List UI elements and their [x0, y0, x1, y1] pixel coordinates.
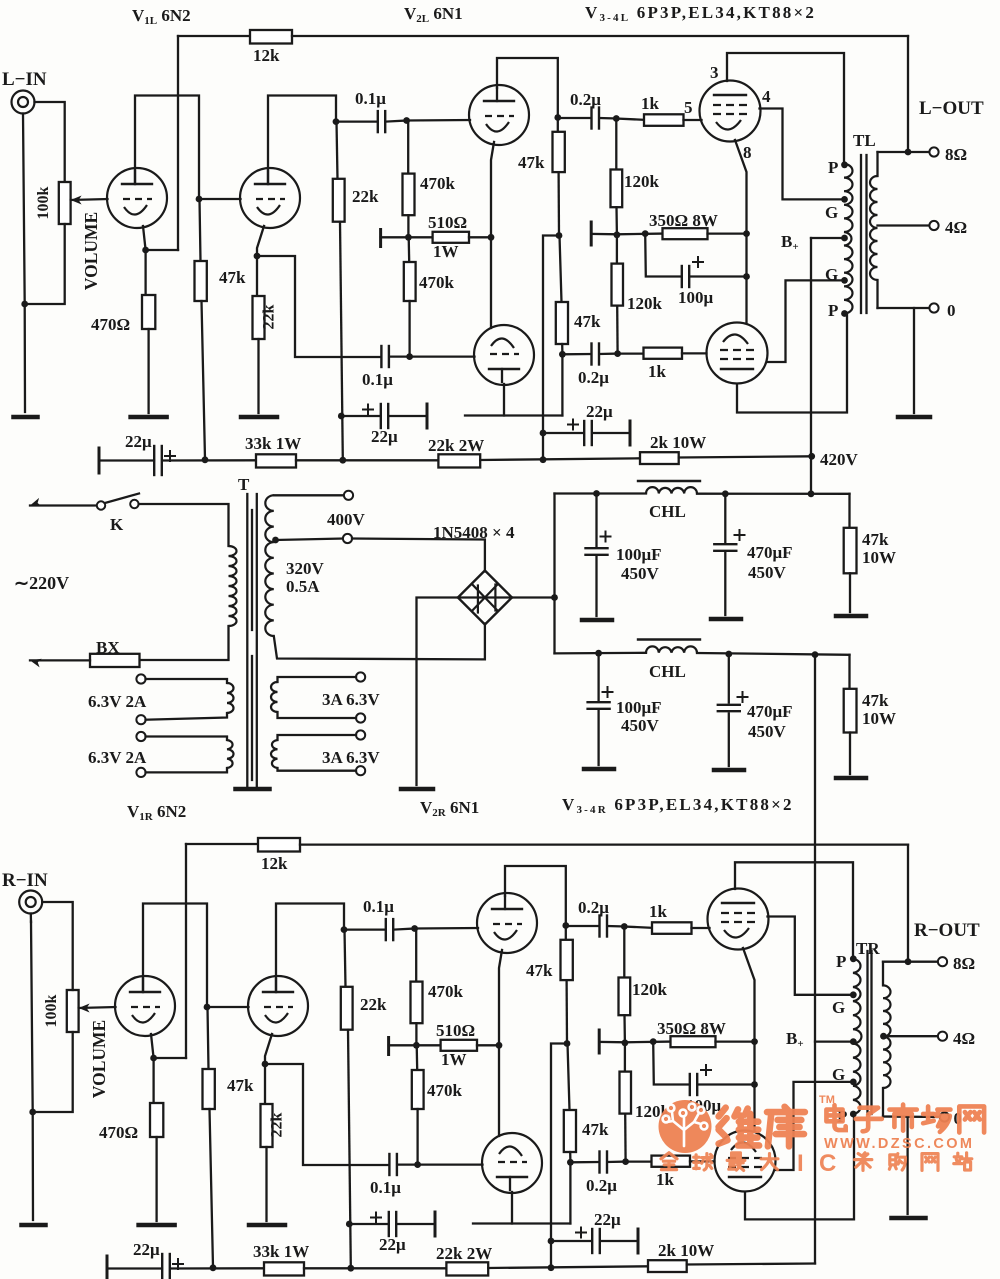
node upper grid branch (R) — [621, 923, 628, 930]
node 22µ (L) — [540, 430, 547, 437]
wire 350Ω to cathodes (L) — [708, 232, 747, 234]
wire V4 plate to OPT P (R) — [745, 1115, 854, 1220]
svg-text:0.5A: 0.5A — [286, 577, 320, 596]
svg-text:470Ω: 470Ω — [91, 315, 130, 334]
label + (L) — [693, 261, 703, 263]
node OPT P top (R) — [850, 955, 857, 962]
node B+ L feed — [808, 490, 815, 497]
wire secondary to ground (L) — [913, 308, 915, 413]
transformer TL core (L) — [860, 155, 862, 313]
node V2-b plate coupling (R) — [567, 1159, 574, 1166]
svg-text:1k: 1k — [649, 902, 668, 921]
wire V3 screen to OPT tap G (R) — [768, 917, 854, 995]
svg-text:47k: 47k — [862, 691, 889, 710]
svg-text:470k: 470k — [428, 982, 464, 1001]
node jog-rail (R) — [548, 1264, 555, 1271]
transformer T primary winding — [229, 546, 237, 626]
capacitor 0.2µ (upper) (L) — [558, 117, 591, 119]
terminal heater L1b — [136, 715, 145, 724]
wire rail (L) — [296, 459, 438, 461]
transformer T HV secondary winding — [265, 495, 274, 636]
capacitor 470µF 450V (1) — [724, 494, 726, 542]
capacitor 22µ (bias bypass right) (R) — [551, 1240, 591, 1242]
watermark text 维库 — [719, 1108, 759, 1146]
watermark text 电子市场网 — [826, 1105, 845, 1130]
transformer TR core — [866, 951, 868, 1114]
wire bleeder 1 to ground — [849, 573, 851, 612]
wire V1-a cathode (L) — [143, 226, 146, 295]
fuse BX — [90, 654, 140, 667]
wire top rail (R) — [300, 843, 908, 845]
svg-text:K: K — [110, 515, 124, 534]
resistor 22k 2W (R) — [446, 1262, 488, 1275]
svg-text:CHL: CHL — [649, 662, 686, 681]
wire V3 plate to OPT P (R) — [735, 862, 853, 959]
heater winding 6.3V 2A (1) — [146, 679, 228, 683]
wire (R) — [345, 930, 346, 987]
terminal heater L2b — [136, 768, 145, 777]
wire DC rail 1 — [555, 492, 647, 494]
wire (R) — [626, 1160, 652, 1162]
wire (L) — [615, 207, 618, 235]
resistor 510Ω 1W (V2 cathode bias) (L) — [433, 232, 469, 243]
wire (L) — [616, 306, 619, 354]
capacitor 0.1µ (lower coupling) (R) — [388, 1154, 390, 1175]
svg-text:470k: 470k — [419, 273, 455, 292]
svg-text:P: P — [828, 301, 838, 320]
wire 350Ω to cathodes (R) — [716, 1040, 755, 1042]
wire secondary to ground (R) — [906, 1117, 908, 1214]
wire V1-a plate to V1-b grid node (L) — [135, 96, 199, 200]
node V1-b grid (R) — [204, 1004, 211, 1011]
svg-text:CHL: CHL — [649, 502, 686, 521]
resistor 47k (grid leak) (R) — [203, 1069, 215, 1109]
svg-text:VOLUME: VOLUME — [89, 1020, 109, 1098]
resistor 470Ω (cathode) (L) — [142, 295, 155, 329]
wire B+ to OPT centre tap (R) — [815, 1040, 853, 1042]
node OPT P bottom (R) — [850, 1111, 857, 1118]
output tube V4 (6P3P/EL34/KT88) (R) — [715, 1131, 776, 1192]
wire 470Ω to ground (R) — [155, 1137, 157, 1221]
svg-text:BX: BX — [96, 638, 120, 657]
node V2-a plate (R) — [562, 922, 569, 929]
resistor 33k 1W (R) — [264, 1262, 304, 1275]
resistor 350Ω 8W (output cathode bias) (L) — [663, 228, 708, 239]
wire 8Ω tap (L) — [878, 151, 930, 153]
svg-text:470Ω: 470Ω — [99, 1123, 138, 1142]
svg-text:120k: 120k — [624, 172, 660, 191]
node first coupling (R) — [341, 926, 348, 933]
ground (input) (L) — [14, 415, 38, 420]
svg-text:47k: 47k — [526, 961, 553, 980]
wire rectifier negative to ground — [417, 598, 458, 786]
svg-text:P: P — [828, 158, 838, 177]
terminal 320V — [343, 534, 352, 543]
node 22k-rail (R) — [347, 1265, 354, 1272]
svg-text:B+: B+ — [786, 1029, 804, 1050]
svg-text:0.1μ: 0.1μ — [363, 897, 394, 916]
ground (bleeder 2) — [836, 776, 866, 781]
terminal 0 (L) — [929, 303, 938, 312]
label + (L) — [165, 455, 175, 457]
node V1-b cathode (L) — [254, 253, 261, 260]
capacitor 22µ (rail left) (L) — [99, 459, 154, 461]
node V2-b plate coupling (L) — [559, 351, 566, 358]
wire grid node to 47k (L) — [200, 199, 201, 261]
wire V2-a plate to driver node (L) — [497, 58, 558, 118]
wire cathode to 12k feedback (L) — [146, 249, 178, 251]
resistor 470k (lower) (R) — [412, 1070, 424, 1109]
svg-text:47k: 47k — [518, 153, 545, 172]
label + (R) — [371, 1217, 381, 1219]
wire (L) — [407, 121, 409, 174]
wire plate stub (L) — [465, 414, 562, 416]
wire (R) — [568, 1044, 570, 1111]
wire 22k down to rail (L) — [340, 222, 343, 459]
svg-text:VOLUME: VOLUME — [81, 212, 101, 290]
node OPT tap G (upper) (L) — [841, 196, 848, 203]
resistor 22k (divider) (L) — [333, 179, 345, 222]
wire 8Ω tap (R) — [883, 961, 938, 963]
wire rail2 to bleeder — [848, 655, 850, 689]
capacitor 0.2µ (lower) (L) — [562, 353, 590, 356]
svg-text:0.2μ: 0.2μ — [570, 90, 601, 109]
node 100µF-1 — [593, 490, 600, 497]
wire 47k to bottom rail (L) — [202, 301, 206, 459]
svg-text:22k: 22k — [261, 304, 278, 329]
node 470k junction (L) — [405, 234, 412, 241]
wire to output grid (R) — [690, 1160, 715, 1162]
wire grid node to 47k (R) — [208, 1007, 209, 1069]
wire (R) — [599, 1041, 625, 1044]
triode V1L-b (6N2) (R) — [248, 976, 308, 1036]
resistor 350Ω 8W (output cathode bias) (R) — [671, 1036, 716, 1047]
stub terminal (R) — [387, 1038, 390, 1055]
svg-text:10W: 10W — [862, 548, 896, 567]
resistor 120k (lower) (R) — [620, 1072, 632, 1114]
node 420V (L) — [808, 453, 815, 460]
node jog-rail (L) — [540, 456, 547, 463]
svg-text:6.3V 2A: 6.3V 2A — [88, 692, 147, 711]
heater winding 3A 6.3V (2) — [278, 735, 357, 740]
node 4Ω tap (R) — [880, 1033, 887, 1040]
node cathode-100µ (R) — [751, 1081, 758, 1088]
wire primary bottom to fuse — [140, 626, 229, 660]
svg-text:120k: 120k — [627, 294, 663, 313]
svg-text:4: 4 — [762, 87, 771, 106]
wire top rail left (L) — [178, 35, 250, 37]
svg-text:C: C — [819, 1150, 836, 1177]
resistor 470k (upper) (R) — [411, 982, 423, 1024]
svg-text:47k: 47k — [219, 268, 246, 287]
wire DC rail 1b — [697, 493, 850, 495]
choke CHL (L) — [646, 487, 697, 493]
resistor 47k (plate load upper) (R) — [561, 940, 573, 980]
svg-text:470k: 470k — [420, 174, 456, 193]
wire rail to B+ node (L) — [679, 456, 812, 457]
svg-text:0.2μ: 0.2μ — [578, 368, 609, 387]
svg-text:12k: 12k — [253, 46, 280, 65]
node V2-a grid (L) — [403, 117, 410, 124]
label + (R) — [576, 1232, 586, 1234]
svg-text:100μ: 100μ — [678, 288, 714, 307]
wire V2-a plate to driver node (R) — [505, 866, 566, 926]
wire to V2-a grid (L) — [407, 119, 470, 122]
svg-text:0.2μ: 0.2μ — [578, 898, 609, 917]
node OPT tap G upper (R) — [850, 991, 857, 998]
ground (transformer core) — [236, 787, 270, 792]
svg-text:1W: 1W — [433, 242, 459, 261]
wire B+ to OPT centre tap (L) — [811, 237, 844, 239]
svg-text:8Ω: 8Ω — [953, 954, 975, 973]
svg-text:450V: 450V — [748, 563, 787, 582]
svg-text:100k: 100k — [43, 994, 60, 1027]
svg-text:8: 8 — [743, 143, 752, 162]
wire jack tip to volume pot (L) — [35, 102, 65, 182]
resistor 2k 10W (R) — [648, 1260, 687, 1272]
wire 320V to rectifier AC1 — [352, 539, 485, 572]
wire (L) — [561, 344, 564, 354]
terminal heater L2a — [136, 732, 145, 741]
svg-text:2k 10W: 2k 10W — [658, 1241, 714, 1260]
transformer TR primary winding — [853, 959, 861, 1114]
svg-text:G: G — [832, 998, 845, 1017]
wire 470Ω to ground (L) — [147, 329, 149, 413]
svg-text:∼220V: ∼220V — [14, 573, 69, 593]
ground (100µF-1) — [582, 618, 612, 623]
resistor 22k (V1-b cathode) (L) — [253, 296, 265, 339]
wire 0 tap (L) — [878, 307, 930, 309]
svg-text:470k: 470k — [427, 1081, 463, 1100]
wire (R) — [416, 1109, 418, 1165]
node OPT centre tap B+ (R) — [850, 1038, 857, 1045]
wire 400V tap — [274, 494, 344, 496]
svg-text:47k: 47k — [582, 1120, 609, 1139]
wire DC riser — [553, 494, 555, 598]
transformer T core — [246, 494, 248, 786]
svg-text:22μ: 22μ — [125, 432, 152, 451]
resistor 470k (upper) (L) — [403, 174, 415, 216]
node rectifier output — [551, 594, 558, 601]
svg-text:0.1μ: 0.1μ — [370, 1178, 401, 1197]
wire pot bottom to input ground (L) — [25, 224, 65, 304]
resistor 470k (lower) (L) — [404, 262, 416, 301]
node V1-b grid (L) — [196, 196, 203, 203]
svg-text:0.2μ: 0.2μ — [586, 1176, 617, 1195]
wire rail (R) — [488, 1266, 648, 1268]
ground (470µF-1) — [711, 617, 741, 622]
output tube V4 (6P3P/EL34/KT88) (L) — [707, 323, 768, 384]
wire to bottom rail (R) — [551, 1044, 567, 1268]
heater winding 3A 6.3V (1) — [278, 677, 357, 682]
wire (L) — [615, 119, 617, 170]
svg-text:10W: 10W — [862, 709, 896, 728]
node V2 cathode (L) — [488, 234, 495, 241]
ground (bleeder 1) — [836, 614, 866, 619]
node 100µF-2 — [595, 650, 602, 657]
node 22µ mid (L) — [338, 413, 345, 420]
wire 510Ω to V2 cathodes (R) — [477, 1044, 499, 1046]
wire 47k to bottom rail (R) — [210, 1109, 214, 1267]
svg-text:1k: 1k — [648, 362, 667, 381]
svg-text:450V: 450V — [621, 716, 660, 735]
wire 510Ω to V2 cathodes (L) — [469, 236, 491, 238]
ground (470µF-2) — [714, 768, 744, 773]
svg-text:3A 6.3V: 3A 6.3V — [322, 748, 380, 767]
heater winding 6.3V 2A (2) — [146, 737, 228, 741]
wire 22k down to rail (R) — [348, 1030, 351, 1267]
ground (V1 cathode) (L) — [131, 415, 167, 420]
svg-text:V3-4L 6P3P,EL34,KT88×2: V3-4L 6P3P,EL34,KT88×2 — [585, 3, 816, 24]
label + (L) — [568, 424, 578, 426]
label + (470µF-2) — [738, 696, 748, 698]
node 22µ (R) — [548, 1238, 555, 1245]
ground (input) (R) — [22, 1223, 46, 1228]
svg-text:TL: TL — [853, 131, 876, 150]
resistor 510Ω 1W (V2 cathode bias) (R) — [441, 1040, 477, 1051]
triode V1L-b (6N2) (L) — [240, 168, 300, 228]
stub terminal (R) — [598, 1030, 601, 1053]
node 470µF-1 — [722, 490, 729, 497]
wire to output grid pin5 (R) — [692, 927, 710, 929]
resistor 47k 10W (bleeder 1) — [844, 528, 857, 574]
node 22µ mid (R) — [346, 1221, 353, 1228]
node 120k junction (R) — [622, 1039, 629, 1046]
wire V1-b cathode (L) — [257, 226, 264, 296]
svg-text:420V: 420V — [820, 450, 859, 469]
node pot-ground junction (L) — [21, 301, 28, 308]
svg-text:2k 10W: 2k 10W — [650, 433, 706, 452]
wire global feedback from 8Ω tap (L) — [907, 36, 909, 152]
capacitor 0.2µ (upper) (R) — [566, 925, 599, 927]
triode V2L-a (6N1) (R) — [477, 893, 537, 953]
transformer TL primary winding (L) — [844, 164, 853, 314]
terminal 4Ω (R) — [938, 1032, 947, 1041]
wire top rail left (R) — [186, 843, 258, 845]
resistor 22k (V1-b cathode) (R) — [261, 1104, 273, 1147]
wire 22k to ground (L) — [257, 339, 259, 413]
wire (R) — [416, 1045, 419, 1070]
watermark text 全球最大IC采购网站 — [661, 1153, 677, 1170]
svg-text:5: 5 — [684, 98, 693, 117]
wire (R) — [569, 1152, 572, 1162]
resistor 470Ω (cathode) (R) — [150, 1103, 163, 1137]
ground (V1-b cathode) (R) — [249, 1223, 285, 1228]
node B+ R feed — [812, 651, 819, 658]
wire 22k to ground (R) — [265, 1147, 267, 1221]
node cathode-feedback junction (R) — [150, 1055, 157, 1062]
ground (rectifier) — [401, 787, 433, 792]
wire jack sleeve down to ground (L) — [23, 114, 25, 413]
wire rail (L) — [480, 458, 640, 460]
stub terminal (L) — [379, 230, 382, 247]
node cathode-feedback junction (L) — [142, 247, 149, 254]
wire pot wiper to V1 grid (R) — [79, 1007, 116, 1008]
terminal heater R2a — [356, 730, 365, 739]
node V2-a plate (L) — [554, 114, 561, 121]
node OPT tap G lower (R) — [850, 1079, 857, 1086]
svg-text:100μF: 100μF — [616, 545, 662, 564]
node lower grid branch (R) — [622, 1158, 629, 1165]
svg-text:100k: 100k — [35, 186, 52, 219]
wire to V2-b grid (L) — [410, 355, 475, 357]
wire to bottom rail (L) — [543, 236, 559, 460]
terminal heater R2b — [356, 766, 365, 775]
wire (R) — [415, 929, 417, 982]
wire (L) — [618, 352, 644, 354]
ground (100µF-2) — [584, 767, 614, 772]
svg-text:B+: B+ — [781, 232, 799, 253]
wire plate stub (R) — [473, 1222, 570, 1224]
wire top rail (L) — [292, 35, 908, 37]
svg-text:22μ: 22μ — [594, 1210, 621, 1229]
label + (R) — [173, 1263, 183, 1265]
svg-text:G: G — [825, 265, 838, 284]
svg-text:1k: 1k — [641, 94, 660, 113]
svg-text:L−IN: L−IN — [2, 69, 47, 90]
transformer TR secondary winding — [882, 962, 884, 986]
wire V3 screen to OPT tap G (L) — [760, 109, 845, 200]
bridge rectifier 1N5408×4 — [458, 571, 512, 625]
wire (R) — [624, 927, 652, 928]
wire 4Ω tap (L) — [878, 224, 930, 226]
svg-text:1k: 1k — [656, 1170, 675, 1189]
node cathode-350Ω (R) — [751, 1038, 758, 1045]
wire (R) — [623, 927, 625, 978]
input jack J-R — [19, 891, 42, 914]
capacitor 0.2µ (lower) (R) — [570, 1161, 598, 1164]
wire DC rail 2b — [697, 653, 850, 655]
node feedback-8Ω (L) — [905, 149, 912, 156]
wire to V1-b grid (L) — [199, 198, 241, 200]
wire (L) — [381, 236, 433, 238]
svg-text:V2L 6N1: V2L 6N1 — [404, 4, 463, 25]
wire (R) — [565, 980, 568, 1043]
resistor 2k 10W (L) — [640, 452, 679, 464]
capacitor 100µF 450V (1) — [595, 494, 597, 547]
node 320V tap — [272, 537, 279, 544]
node OPT P (bottom) (L) — [841, 310, 848, 317]
node 470k junction (R) — [413, 1042, 420, 1049]
node V2-b grid (R) — [414, 1161, 421, 1168]
node 47k junction (R) — [564, 1040, 571, 1047]
svg-text:6.3V 2A: 6.3V 2A — [88, 748, 147, 767]
wire V1-b cathode to lower coupling cap (L) — [257, 256, 381, 357]
wire (R) — [415, 1023, 417, 1045]
resistor 1k (grid stopper lower) (R) — [652, 1156, 691, 1167]
node 47k-rail (R) — [210, 1264, 217, 1271]
label + (470µF-1) — [735, 534, 745, 536]
resistor 47k (plate load lower) (R) — [564, 1110, 576, 1152]
svg-text:12k: 12k — [261, 854, 288, 873]
node 47k junction (L) — [556, 232, 563, 239]
wire (L) — [557, 118, 559, 132]
svg-text:3: 3 — [710, 63, 719, 82]
svg-text:WWW.DZSC.COM: WWW.DZSC.COM — [824, 1136, 974, 1152]
node pot-ground junction (R) — [29, 1109, 36, 1116]
capacitor 22µ (rail left) (R) — [107, 1267, 162, 1269]
wire 0 tap (R) — [883, 1115, 940, 1118]
svg-text:4Ω: 4Ω — [953, 1029, 975, 1048]
svg-text:1W: 1W — [441, 1050, 467, 1069]
capacitor 100µ (cathode bypass) (L) — [645, 234, 681, 277]
wire (L) — [408, 301, 410, 357]
svg-text:100μF: 100μF — [616, 698, 662, 717]
switch K — [97, 501, 105, 509]
stub terminal (rail left) (R) — [106, 1256, 109, 1279]
wire (R) — [623, 1015, 626, 1043]
wire (L) — [616, 119, 644, 120]
